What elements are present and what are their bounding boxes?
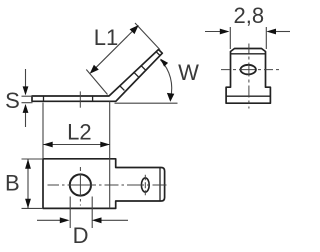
bend tick on tab 3 — [141, 66, 146, 71]
W arc arrowhead lower — [167, 93, 174, 102]
B extension line bottom — [22, 207, 44, 209]
L2 arrowhead right — [100, 142, 110, 148]
tab tip inner cap line — [156, 52, 160, 56]
S extension line top — [22, 95, 33, 97]
L1 arrowhead lower — [90, 65, 99, 74]
D left arrow — [37, 219, 62, 221]
tab end fold line — [159, 168, 161, 201]
svg-text:W: W — [178, 60, 199, 85]
L1 extension line at tip — [135, 23, 160, 50]
hole D — [70, 174, 91, 195]
L1 extension line at bend — [86, 70, 107, 95]
top view: plate with tab — [43, 159, 165, 209]
strip tick at hole edge — [92, 96, 94, 102]
vertical centerline of end view — [248, 44, 250, 109]
S dimension lower arrow — [25, 111, 27, 128]
side view: flat strip with 45-degree bent tab — [32, 50, 162, 102]
W arc arrowhead upper — [160, 59, 168, 67]
strip tick at body left edge — [43, 96, 45, 102]
bend tick on tab 2 — [134, 72, 139, 77]
2,8 left arrow — [205, 31, 222, 33]
hole vertical centerline — [79, 167, 81, 206]
svg-text:S: S — [5, 88, 20, 113]
bend tick on tab 1 — [120, 86, 125, 91]
svg-text:D: D — [73, 223, 89, 248]
L1 arrowhead upper — [130, 25, 139, 34]
L2 arrowhead left — [43, 142, 53, 148]
end view: tab face outline — [226, 49, 270, 104]
D extension line right — [91, 197, 93, 229]
B dimension line — [27, 159, 29, 208]
D right arrow — [100, 219, 129, 221]
base plate top line — [226, 95, 270, 97]
projection line from bend to top view (bend line) — [109, 102, 111, 209]
svg-text:2,8: 2,8 — [234, 3, 265, 28]
horizontal centerline of plate — [48, 184, 169, 186]
S dimension upper arrow — [25, 69, 27, 89]
S extension line bottom — [22, 102, 33, 104]
svg-text:B: B — [5, 171, 20, 196]
strip centerline tick (hole center) — [79, 91, 81, 107]
L2 dimension line — [43, 144, 110, 146]
dimple vertical centerline — [144, 175, 146, 196]
svg-text:L1: L1 — [94, 25, 118, 50]
B arrowhead top — [25, 159, 31, 169]
dimple ellipse in tab (top view) — [141, 178, 149, 192]
B arrowhead bottom — [25, 199, 31, 209]
tab fold line below top — [231, 53, 265, 55]
dimple ellipse (end view) — [241, 65, 256, 75]
B extension line top — [22, 158, 44, 160]
W arc dimension — [160, 60, 171, 100]
L2 extension line left (from strip to body corner) — [42, 103, 44, 159]
2,8 right arrow — [274, 31, 290, 33]
2,8 extension line right — [265, 27, 267, 49]
D extension line left — [69, 197, 71, 229]
L1 dimension line — [92, 27, 137, 72]
svg-text:L2: L2 — [67, 120, 91, 145]
horizontal centerline of end view — [221, 69, 281, 71]
2,8 extension line left — [229, 27, 231, 49]
angle baseline for W — [115, 102, 178, 104]
